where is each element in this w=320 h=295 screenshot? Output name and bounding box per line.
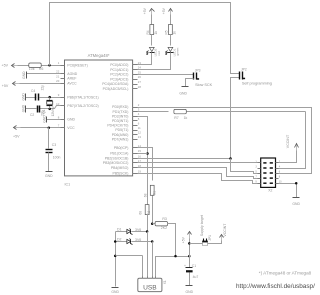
svg-text:PD4(XCK/T0): PD4(XCK/T0): [107, 124, 128, 128]
svg-text:R2: R2: [147, 211, 151, 215]
svg-text:27: 27: [138, 80, 142, 84]
svg-text:+: +: [184, 264, 186, 268]
svg-text:68: 68: [138, 211, 142, 215]
svg-text:+5V: +5V: [2, 84, 9, 88]
svg-text:16: 16: [138, 154, 142, 158]
svg-text:+5V: +5V: [143, 7, 147, 14]
svg-text:Self programming: Self programming: [242, 82, 272, 86]
svg-text:GND: GND: [22, 71, 26, 79]
svg-text:68: 68: [143, 193, 147, 197]
svg-text:+5V: +5V: [182, 236, 186, 243]
svg-text:PD6(AIN0): PD6(AIN0): [112, 133, 129, 137]
svg-text:PB5(SCK): PB5(SCK): [113, 172, 129, 176]
svg-text:10k: 10k: [29, 67, 35, 71]
svg-text:IC1: IC1: [65, 182, 71, 186]
svg-text:R4: R4: [146, 30, 150, 34]
svg-text:GND: GND: [45, 174, 53, 178]
svg-text:+5V: +5V: [13, 135, 20, 139]
svg-text:R5: R5: [165, 30, 169, 34]
svg-text:GND: GND: [179, 91, 187, 95]
svg-text:C1: C1: [192, 264, 196, 268]
svg-text:red: red: [157, 51, 161, 56]
svg-text:Q1: Q1: [42, 109, 46, 113]
svg-text:21: 21: [56, 74, 60, 78]
svg-text:USB: USB: [143, 284, 157, 291]
svg-text:1k: 1k: [173, 31, 177, 35]
svg-text:PC0(ADC0): PC0(ADC0): [110, 63, 128, 67]
svg-text:26: 26: [138, 75, 142, 79]
svg-text:28: 28: [138, 85, 142, 89]
svg-text:1k: 1k: [184, 116, 188, 120]
svg-text:ATMega48*: ATMega48*: [88, 53, 110, 58]
svg-text:PD5(T1): PD5(T1): [115, 128, 128, 132]
svg-text:PC2(ADC2): PC2(ADC2): [110, 73, 128, 77]
svg-text:GND: GND: [21, 93, 25, 101]
svg-text:11: 11: [138, 126, 141, 130]
svg-text:PB0(ICP): PB0(ICP): [114, 146, 129, 150]
svg-text:VCC: VCC: [67, 126, 75, 130]
svg-text:GND: GND: [111, 290, 119, 294]
svg-text:+5V: +5V: [162, 7, 166, 14]
svg-text:PB6(XTAL1/TOSC1): PB6(XTAL1/TOSC1): [67, 95, 98, 99]
svg-text:R7: R7: [174, 116, 179, 120]
svg-text:13: 13: [138, 135, 142, 139]
svg-text:PC5(ADC5/SCL): PC5(ADC5/SCL): [103, 87, 129, 91]
svg-text:*) ATmega48 or ATmega8: *) ATmega48 or ATmega8: [259, 271, 312, 276]
svg-text:PC1(ADC1): PC1(ADC1): [110, 68, 128, 72]
svg-text:PC3(ADC3): PC3(ADC3): [110, 77, 128, 81]
svg-text:4u7: 4u7: [193, 275, 199, 279]
svg-text:12MHz: 12MHz: [51, 106, 55, 117]
svg-text:GND: GND: [292, 202, 300, 206]
svg-text:Slow SCK: Slow SCK: [195, 83, 213, 87]
svg-text:X2: X2: [268, 189, 272, 193]
svg-text:PD2(INT0): PD2(INT0): [112, 114, 128, 118]
svg-text:2K2: 2K2: [161, 226, 167, 230]
svg-text:15: 15: [138, 149, 142, 153]
svg-text:http://www.fischl.de/usbasp/: http://www.fischl.de/usbasp/: [236, 283, 315, 290]
svg-text:R6: R6: [39, 67, 44, 71]
svg-text:PC6(RESET): PC6(RESET): [67, 63, 87, 67]
svg-text:PB7(XTAL2/TOSC2): PB7(XTAL2/TOSC2): [67, 104, 98, 108]
svg-text:PB2(SS/OC1B): PB2(SS/OC1B): [105, 157, 129, 161]
svg-text:+5V: +5V: [2, 64, 9, 68]
svg-text:green: green: [176, 47, 180, 55]
svg-text:VCCINT: VCCINT: [223, 223, 227, 237]
svg-text:R1: R1: [153, 191, 157, 195]
svg-text:PD1(TXD): PD1(TXD): [113, 110, 129, 114]
svg-text:VCCINT: VCCINT: [286, 134, 290, 148]
svg-text:C4: C4: [31, 89, 35, 93]
svg-text:AVCC: AVCC: [67, 81, 77, 85]
svg-text:100n: 100n: [53, 155, 61, 159]
svg-text:PB1(OC1A): PB1(OC1A): [110, 151, 128, 155]
svg-text:Supply target: Supply target: [200, 215, 204, 236]
svg-text:1k: 1k: [154, 31, 158, 35]
svg-text:C3: C3: [52, 143, 56, 147]
svg-text:X1: X1: [163, 280, 167, 284]
svg-text:R3: R3: [162, 217, 167, 221]
svg-text:22p: 22p: [41, 85, 45, 91]
svg-text:PB4(MISO): PB4(MISO): [111, 166, 129, 170]
svg-text:C2: C2: [30, 113, 34, 117]
svg-text:AREF: AREF: [67, 77, 76, 81]
svg-text:JP1: JP1: [208, 235, 212, 241]
svg-text:JP3: JP3: [195, 68, 201, 72]
svg-text:JP2: JP2: [241, 67, 247, 71]
svg-text:PD0(RXD): PD0(RXD): [112, 105, 128, 109]
svg-text:20: 20: [56, 79, 60, 83]
svg-text:PC4(ADC4/SDA): PC4(ADC4/SDA): [102, 82, 128, 86]
svg-text:AGND: AGND: [67, 72, 77, 76]
svg-text:25: 25: [138, 70, 142, 74]
svg-text:GND: GND: [21, 104, 25, 112]
svg-text:PD7(AIN1): PD7(AIN1): [112, 137, 129, 141]
svg-text:PD3(INT1): PD3(INT1): [112, 119, 128, 123]
svg-text:12: 12: [138, 131, 142, 135]
svg-text:PB3(MOSI/OC2): PB3(MOSI/OC2): [103, 161, 129, 165]
svg-text:GND: GND: [186, 290, 194, 294]
svg-text:19: 19: [138, 169, 142, 173]
svg-text:GND: GND: [43, 115, 47, 123]
svg-text:GND: GND: [67, 118, 75, 122]
